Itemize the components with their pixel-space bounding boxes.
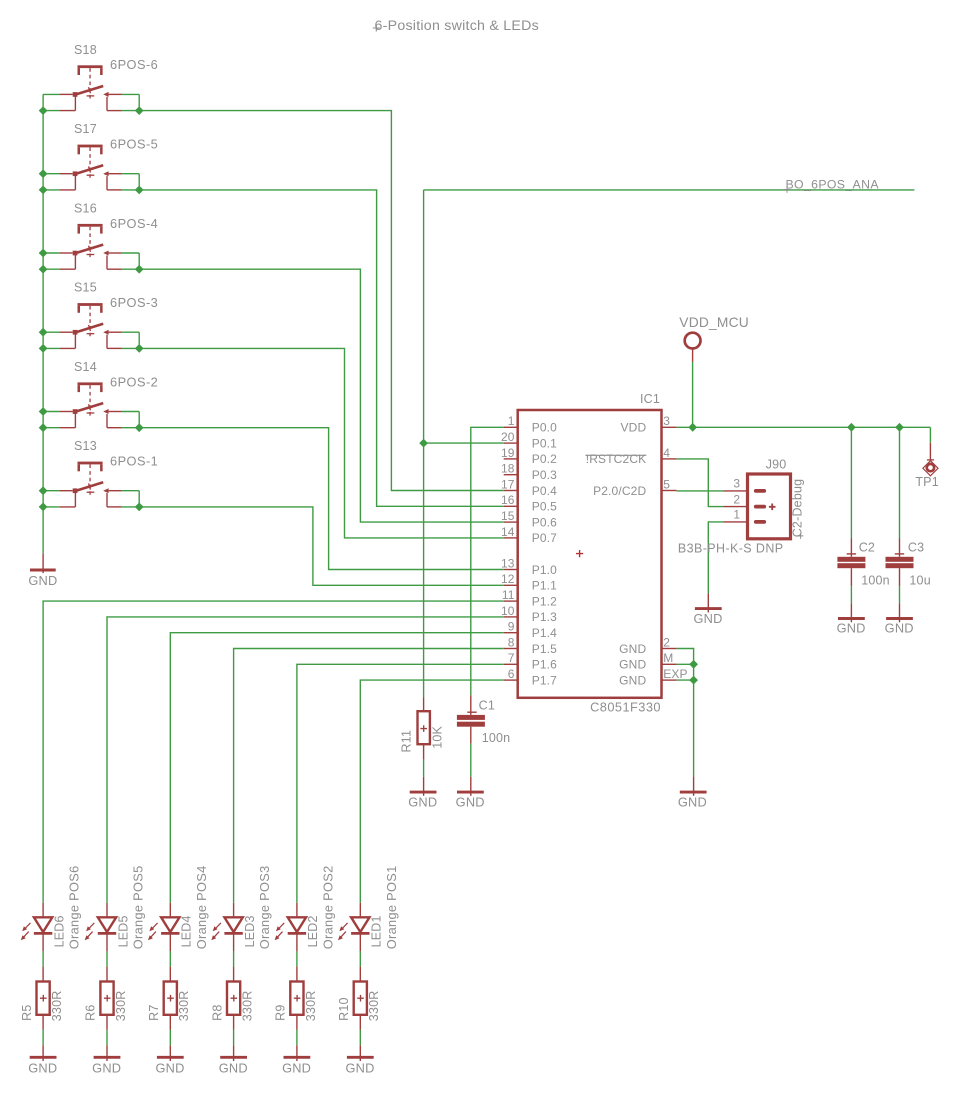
wire xyxy=(43,173,59,175)
wire GND bus xyxy=(42,94,44,553)
svg-text:100n: 100n xyxy=(482,731,511,745)
svg-text:GND: GND xyxy=(219,1060,248,1075)
svg-text:6POS-6: 6POS-6 xyxy=(110,57,158,72)
ground GND (R5) xyxy=(30,1045,57,1061)
svg-text:17: 17 xyxy=(501,477,515,491)
wire xyxy=(169,1030,171,1045)
svg-text:7: 7 xyxy=(508,651,515,665)
wire net from S15 xyxy=(139,348,504,538)
pin 2 GND xyxy=(662,648,677,650)
wire xyxy=(43,331,59,333)
svg-text:C8051F330: C8051F330 xyxy=(590,700,661,715)
svg-text:IC1: IC1 xyxy=(640,392,660,406)
ground GND (IC) xyxy=(680,776,707,795)
svg-text:16: 16 xyxy=(501,493,515,507)
wire xyxy=(850,427,852,538)
connector J90 xyxy=(724,474,791,539)
wire xyxy=(122,490,139,492)
ground GND (R11) xyxy=(410,777,437,796)
wire xyxy=(296,1030,298,1045)
svg-text:330R: 330R xyxy=(304,991,318,1022)
svg-text:P0.5: P0.5 xyxy=(532,500,557,514)
ground GND (R8) xyxy=(220,1045,247,1061)
svg-text:GND: GND xyxy=(678,794,707,809)
wire xyxy=(138,253,140,269)
junction xyxy=(39,423,48,432)
pin 1 P0.0 xyxy=(504,426,518,428)
svg-text:P0.0: P0.0 xyxy=(532,421,557,435)
ground GND (J90) xyxy=(695,593,722,612)
wire xyxy=(122,110,139,112)
svg-text:3: 3 xyxy=(663,414,670,428)
ground GND (R10) xyxy=(347,1045,374,1061)
wire net from S17 xyxy=(139,190,504,506)
junction xyxy=(39,249,48,258)
wire xyxy=(42,951,44,966)
wire xyxy=(122,331,139,333)
svg-text:GND: GND xyxy=(619,658,646,672)
ground GND (R6) xyxy=(94,1045,121,1061)
svg-text:S17: S17 xyxy=(74,122,97,136)
wire LED5 net xyxy=(107,617,504,903)
wire xyxy=(122,173,139,175)
svg-text:S13: S13 xyxy=(74,439,97,453)
svg-text:R10: R10 xyxy=(337,997,351,1021)
svg-text:18: 18 xyxy=(501,462,515,476)
wire RST to J90 pin 2 xyxy=(677,459,724,507)
svg-text:Orange POS3: Orange POS3 xyxy=(257,866,272,950)
junction xyxy=(39,328,48,337)
svg-text:2: 2 xyxy=(733,492,740,506)
svg-text:VDD: VDD xyxy=(621,421,647,435)
wire P0.0 to C1 xyxy=(471,427,504,695)
svg-text:P0.7: P0.7 xyxy=(532,531,557,545)
wire xyxy=(43,347,59,349)
wire xyxy=(899,427,901,538)
svg-text:GND: GND xyxy=(456,794,485,809)
svg-text:Orange POS5: Orange POS5 xyxy=(131,866,146,950)
wire xyxy=(677,663,694,665)
capacitor C2 xyxy=(837,539,865,587)
svg-text:10: 10 xyxy=(501,604,515,618)
svg-text:P0.3: P0.3 xyxy=(532,468,557,482)
svg-text:Orange POS4: Orange POS4 xyxy=(194,866,209,950)
resistor R9 xyxy=(290,967,303,1030)
resistor R10 xyxy=(354,967,367,1030)
title origin cross xyxy=(373,25,380,32)
svg-text:S18: S18 xyxy=(74,43,97,57)
wire J90 pin 1 to GND xyxy=(708,522,723,594)
op IC1 C8051F330 box xyxy=(518,410,662,698)
wire xyxy=(233,951,235,966)
svg-text:6POS-1: 6POS-1 xyxy=(110,454,158,469)
junction xyxy=(39,407,48,416)
junction xyxy=(39,503,48,512)
wire xyxy=(359,951,361,966)
wire xyxy=(423,760,425,777)
pin 12 P1.1 xyxy=(504,584,518,586)
wire IC GND xyxy=(677,649,694,777)
svg-text:P0.2: P0.2 xyxy=(532,452,557,466)
svg-text:BO_6POS_ANA: BO_6POS_ANA xyxy=(786,177,880,191)
ground GND (C3) xyxy=(886,603,913,622)
ground GND (R7) xyxy=(157,1045,184,1061)
svg-text:P0.1: P0.1 xyxy=(532,436,557,450)
svg-text:6: 6 xyxy=(508,667,515,681)
pin 20 P0.1 xyxy=(504,442,518,444)
svg-text:LED5: LED5 xyxy=(116,915,130,947)
svg-text:GND: GND xyxy=(693,611,722,626)
svg-text:6POS-4: 6POS-4 xyxy=(110,216,158,231)
pin 13 P1.0 xyxy=(504,569,518,571)
wire xyxy=(169,951,171,966)
wire xyxy=(106,1030,108,1045)
svg-text:1: 1 xyxy=(733,508,740,522)
pin 7 P1.6 xyxy=(504,663,518,665)
junction xyxy=(847,423,856,432)
junction xyxy=(689,676,698,685)
svg-text:LED4: LED4 xyxy=(180,915,194,947)
svg-text:P2.0/C2D: P2.0/C2D xyxy=(593,484,646,498)
wire xyxy=(43,411,59,413)
wire net from S13 xyxy=(139,507,504,585)
pin 9 P1.4 xyxy=(504,632,518,634)
svg-text:LED1: LED1 xyxy=(370,915,384,947)
svg-text:12: 12 xyxy=(501,572,515,586)
switch S16 xyxy=(59,224,122,269)
wire xyxy=(359,1030,361,1045)
junction xyxy=(39,265,48,274)
pin 3 VDD xyxy=(662,426,677,428)
wire xyxy=(692,362,694,427)
pin 10 P1.3 xyxy=(504,616,518,618)
junction xyxy=(135,265,144,274)
pin 11 P1.2 xyxy=(504,600,518,602)
junction xyxy=(135,423,144,432)
junction xyxy=(419,439,428,448)
svg-text:R7: R7 xyxy=(147,1005,161,1021)
IC1 origin cross xyxy=(576,550,583,557)
svg-text:!RSTC2CK: !RSTC2CK xyxy=(586,452,647,466)
wire xyxy=(677,679,694,681)
svg-text:C2-Debug: C2-Debug xyxy=(791,479,805,538)
wire LED2 net xyxy=(297,664,504,903)
svg-text:GND: GND xyxy=(345,1060,374,1075)
svg-text:C2: C2 xyxy=(859,541,875,555)
svg-text:GND: GND xyxy=(885,621,914,636)
svg-text:S15: S15 xyxy=(74,281,97,295)
wire xyxy=(122,411,139,413)
wire LED4 net xyxy=(170,633,503,903)
text origin cross xyxy=(798,533,804,539)
testpoint TP1 xyxy=(923,443,938,476)
wire BO_6POS_ANA xyxy=(424,189,915,191)
svg-text:LED2: LED2 xyxy=(306,915,320,947)
ground GND (C1) xyxy=(457,777,484,796)
svg-text:GND: GND xyxy=(155,1060,184,1075)
resistor R5 xyxy=(37,967,50,1030)
svg-text:Orange POS6: Orange POS6 xyxy=(67,866,82,950)
junction xyxy=(135,186,144,195)
wire xyxy=(43,506,59,508)
svg-text:6POS-2: 6POS-2 xyxy=(110,374,158,389)
LED LED2 xyxy=(275,903,307,952)
LED LED1 xyxy=(338,903,370,952)
svg-text:P1.6: P1.6 xyxy=(532,658,557,672)
svg-text:EXP: EXP xyxy=(663,667,687,681)
wire xyxy=(296,951,298,966)
svg-text:B3B-PH-K-S DNP: B3B-PH-K-S DNP xyxy=(678,542,784,556)
pin name !RSTC2CK with overline xyxy=(585,452,646,466)
label origin cross xyxy=(784,186,790,192)
svg-text:GND: GND xyxy=(408,794,437,809)
wire xyxy=(850,586,852,603)
wire xyxy=(122,427,139,429)
junction xyxy=(689,660,698,669)
wire xyxy=(122,268,139,270)
svg-text:P1.7: P1.7 xyxy=(532,673,557,687)
svg-text:R5: R5 xyxy=(20,1005,34,1021)
junction xyxy=(688,423,697,432)
svg-text:GND: GND xyxy=(837,621,866,636)
wire xyxy=(470,744,472,777)
svg-text:GND: GND xyxy=(619,642,646,656)
LED LED3 xyxy=(211,903,243,952)
wire to P0.1 xyxy=(424,442,504,444)
resistor R6 xyxy=(100,967,113,1030)
wire xyxy=(43,110,59,112)
junction xyxy=(135,344,144,353)
switch S15 xyxy=(59,303,122,348)
capacitor C3 xyxy=(886,539,914,587)
svg-text:P1.5: P1.5 xyxy=(532,642,557,656)
wire xyxy=(122,189,139,191)
svg-text:11: 11 xyxy=(502,588,515,602)
svg-text:10K: 10K xyxy=(430,725,444,748)
pin 5 P2.0/C2D xyxy=(662,490,677,492)
svg-text:100n: 100n xyxy=(861,573,890,587)
wire xyxy=(138,491,140,507)
wire xyxy=(43,268,59,270)
wire net from S14 xyxy=(139,428,504,570)
svg-text:P1.3: P1.3 xyxy=(532,610,557,624)
junction xyxy=(39,169,48,178)
svg-text:GND: GND xyxy=(28,1060,57,1075)
svg-text:P1.4: P1.4 xyxy=(532,626,557,640)
resistor R11 xyxy=(418,698,430,760)
svg-text:C1: C1 xyxy=(479,699,495,713)
wire net from S16 xyxy=(139,269,504,522)
ground GND (C2) xyxy=(838,603,865,622)
svg-text:10u: 10u xyxy=(909,573,930,587)
svg-text:15: 15 xyxy=(501,509,515,523)
wire xyxy=(43,189,59,191)
svg-text:20: 20 xyxy=(501,430,515,444)
wire xyxy=(106,951,108,966)
pin 8 P1.5 xyxy=(504,648,518,650)
svg-text:GND: GND xyxy=(619,673,646,687)
resistor R8 xyxy=(227,967,240,1030)
svg-text:330R: 330R xyxy=(114,991,128,1022)
svg-text:5: 5 xyxy=(663,477,670,491)
wire xyxy=(138,174,140,190)
junction xyxy=(39,486,48,495)
switch S13 xyxy=(59,462,122,507)
svg-text:330R: 330R xyxy=(367,991,381,1022)
wire xyxy=(423,190,425,698)
svg-text:P1.2: P1.2 xyxy=(532,594,557,608)
pin EXP GND xyxy=(662,679,677,681)
svg-text:J90: J90 xyxy=(766,457,787,471)
junction xyxy=(135,106,144,115)
junction xyxy=(135,503,144,512)
svg-text:1: 1 xyxy=(508,414,515,428)
pin 4 !RSTC2CK xyxy=(662,458,677,460)
ground GND (R9) xyxy=(284,1045,311,1061)
svg-text:Orange POS2: Orange POS2 xyxy=(321,866,336,950)
wire xyxy=(138,94,140,110)
svg-text:R8: R8 xyxy=(210,1005,224,1021)
svg-text:Orange POS1: Orange POS1 xyxy=(384,866,399,950)
wire xyxy=(43,427,59,429)
wire xyxy=(929,427,931,443)
svg-text:4: 4 xyxy=(663,446,670,460)
svg-text:9: 9 xyxy=(508,620,515,634)
svg-text:S16: S16 xyxy=(74,201,97,215)
svg-text:GND: GND xyxy=(92,1060,121,1075)
pin 14 P0.7 xyxy=(504,537,518,539)
LED LED5 xyxy=(85,903,117,952)
supply VDD_MCU xyxy=(685,333,701,362)
pin 19 P0.2 xyxy=(504,458,518,460)
wire xyxy=(43,490,59,492)
svg-text:M: M xyxy=(663,651,673,665)
resistor R7 xyxy=(164,967,177,1030)
svg-text:13: 13 xyxy=(501,556,515,570)
svg-text:6POS-3: 6POS-3 xyxy=(110,295,158,310)
wire xyxy=(138,332,140,348)
svg-text:330R: 330R xyxy=(241,991,255,1022)
capacitor C1 xyxy=(457,695,485,743)
pin 17 P0.4 xyxy=(504,490,518,492)
junction xyxy=(39,186,48,195)
pin 18 P0.3 xyxy=(504,474,518,476)
svg-text:LED3: LED3 xyxy=(243,915,257,947)
svg-text:6POS-5: 6POS-5 xyxy=(110,137,158,152)
svg-text:8: 8 xyxy=(508,635,515,649)
svg-text:P0.6: P0.6 xyxy=(532,515,557,529)
svg-text:6-Position switch & LEDs: 6-Position switch & LEDs xyxy=(375,18,540,34)
wire xyxy=(122,506,139,508)
svg-text:VDD_MCU: VDD_MCU xyxy=(679,315,749,330)
wire net from S18 xyxy=(139,111,504,491)
wire LED6 net xyxy=(43,601,504,903)
svg-text:2: 2 xyxy=(663,635,670,649)
wire xyxy=(122,93,139,95)
pin 6 P1.7 xyxy=(504,679,518,681)
wire xyxy=(122,347,139,349)
svg-text:R11: R11 xyxy=(400,730,414,753)
svg-text:TP1: TP1 xyxy=(915,475,939,489)
svg-text:R6: R6 xyxy=(84,1005,98,1021)
wire VDD xyxy=(677,426,931,428)
switch S14 xyxy=(59,382,122,427)
wire xyxy=(138,412,140,428)
wire xyxy=(43,93,59,95)
svg-text:P1.1: P1.1 xyxy=(532,579,557,593)
LED LED4 xyxy=(148,903,180,952)
svg-text:19: 19 xyxy=(501,446,515,460)
switch S17 xyxy=(59,145,122,190)
pin 16 P0.5 xyxy=(504,505,518,507)
wire xyxy=(43,252,59,254)
svg-text:P0.4: P0.4 xyxy=(532,484,557,498)
svg-text:R9: R9 xyxy=(274,1005,288,1021)
pin M GND xyxy=(662,663,677,665)
junction xyxy=(895,423,904,432)
svg-text:330R: 330R xyxy=(50,991,64,1022)
ground GND (switch bus) xyxy=(30,554,56,573)
pin 15 P0.6 xyxy=(504,521,518,523)
wire LED3 net xyxy=(234,649,504,903)
junction xyxy=(39,106,48,115)
junction xyxy=(39,344,48,353)
svg-text:14: 14 xyxy=(501,525,515,539)
svg-text:C3: C3 xyxy=(908,541,924,555)
svg-text:330R: 330R xyxy=(177,991,191,1022)
wire LED1 net xyxy=(360,680,503,903)
LED LED6 xyxy=(21,903,53,952)
svg-text:GND: GND xyxy=(282,1060,311,1075)
wire xyxy=(42,1030,44,1045)
svg-text:LED6: LED6 xyxy=(52,915,66,947)
svg-text:GND: GND xyxy=(28,573,57,588)
wire xyxy=(899,586,901,603)
svg-text:3: 3 xyxy=(733,477,740,491)
svg-text:P1.0: P1.0 xyxy=(532,563,557,577)
switch S18 xyxy=(59,65,122,110)
svg-text:S14: S14 xyxy=(74,360,97,374)
wire xyxy=(122,252,139,254)
wire C2D to J90 pin 3 xyxy=(677,490,724,492)
wire xyxy=(233,1030,235,1045)
